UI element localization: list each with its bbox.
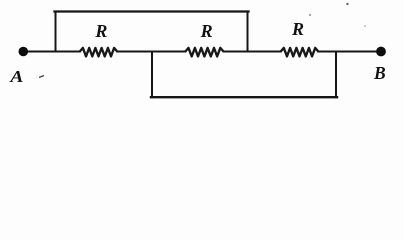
- svg-text:A: A: [9, 67, 23, 86]
- svg-text:R: R: [200, 21, 213, 41]
- svg-text:R: R: [94, 21, 107, 41]
- svg-text:R: R: [291, 19, 304, 39]
- svg-text:B: B: [373, 63, 386, 83]
